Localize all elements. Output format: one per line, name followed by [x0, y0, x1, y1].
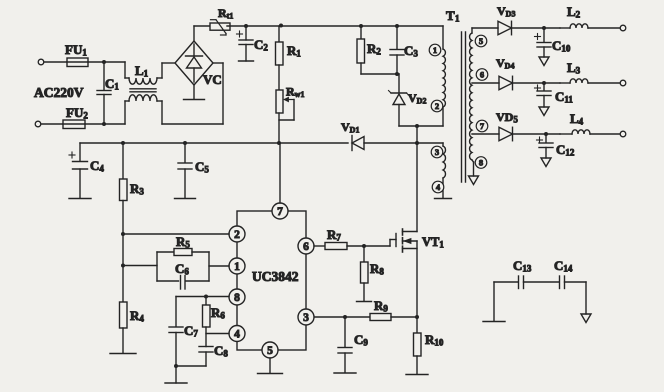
svg-text:T: T	[446, 8, 455, 23]
svg-text:2: 2	[234, 229, 240, 241]
svg-text:6: 6	[303, 241, 309, 253]
svg-text:6: 6	[480, 70, 484, 80]
svg-text:8: 8	[234, 292, 240, 304]
svg-text:2: 2	[435, 101, 439, 111]
svg-text:7: 7	[277, 206, 283, 218]
svg-text:3: 3	[435, 147, 439, 157]
svg-text:VC: VC	[203, 72, 222, 87]
svg-text:1: 1	[455, 14, 460, 24]
svg-text:1: 1	[234, 261, 240, 273]
svg-text:1: 1	[433, 45, 437, 55]
svg-text:8: 8	[479, 158, 483, 168]
svg-text:4: 4	[234, 329, 240, 341]
svg-text:UC3842: UC3842	[252, 269, 299, 284]
svg-text:5: 5	[479, 36, 483, 46]
svg-text:AC220V: AC220V	[34, 85, 84, 100]
svg-text:5: 5	[267, 345, 273, 357]
svg-text:3: 3	[303, 312, 309, 324]
